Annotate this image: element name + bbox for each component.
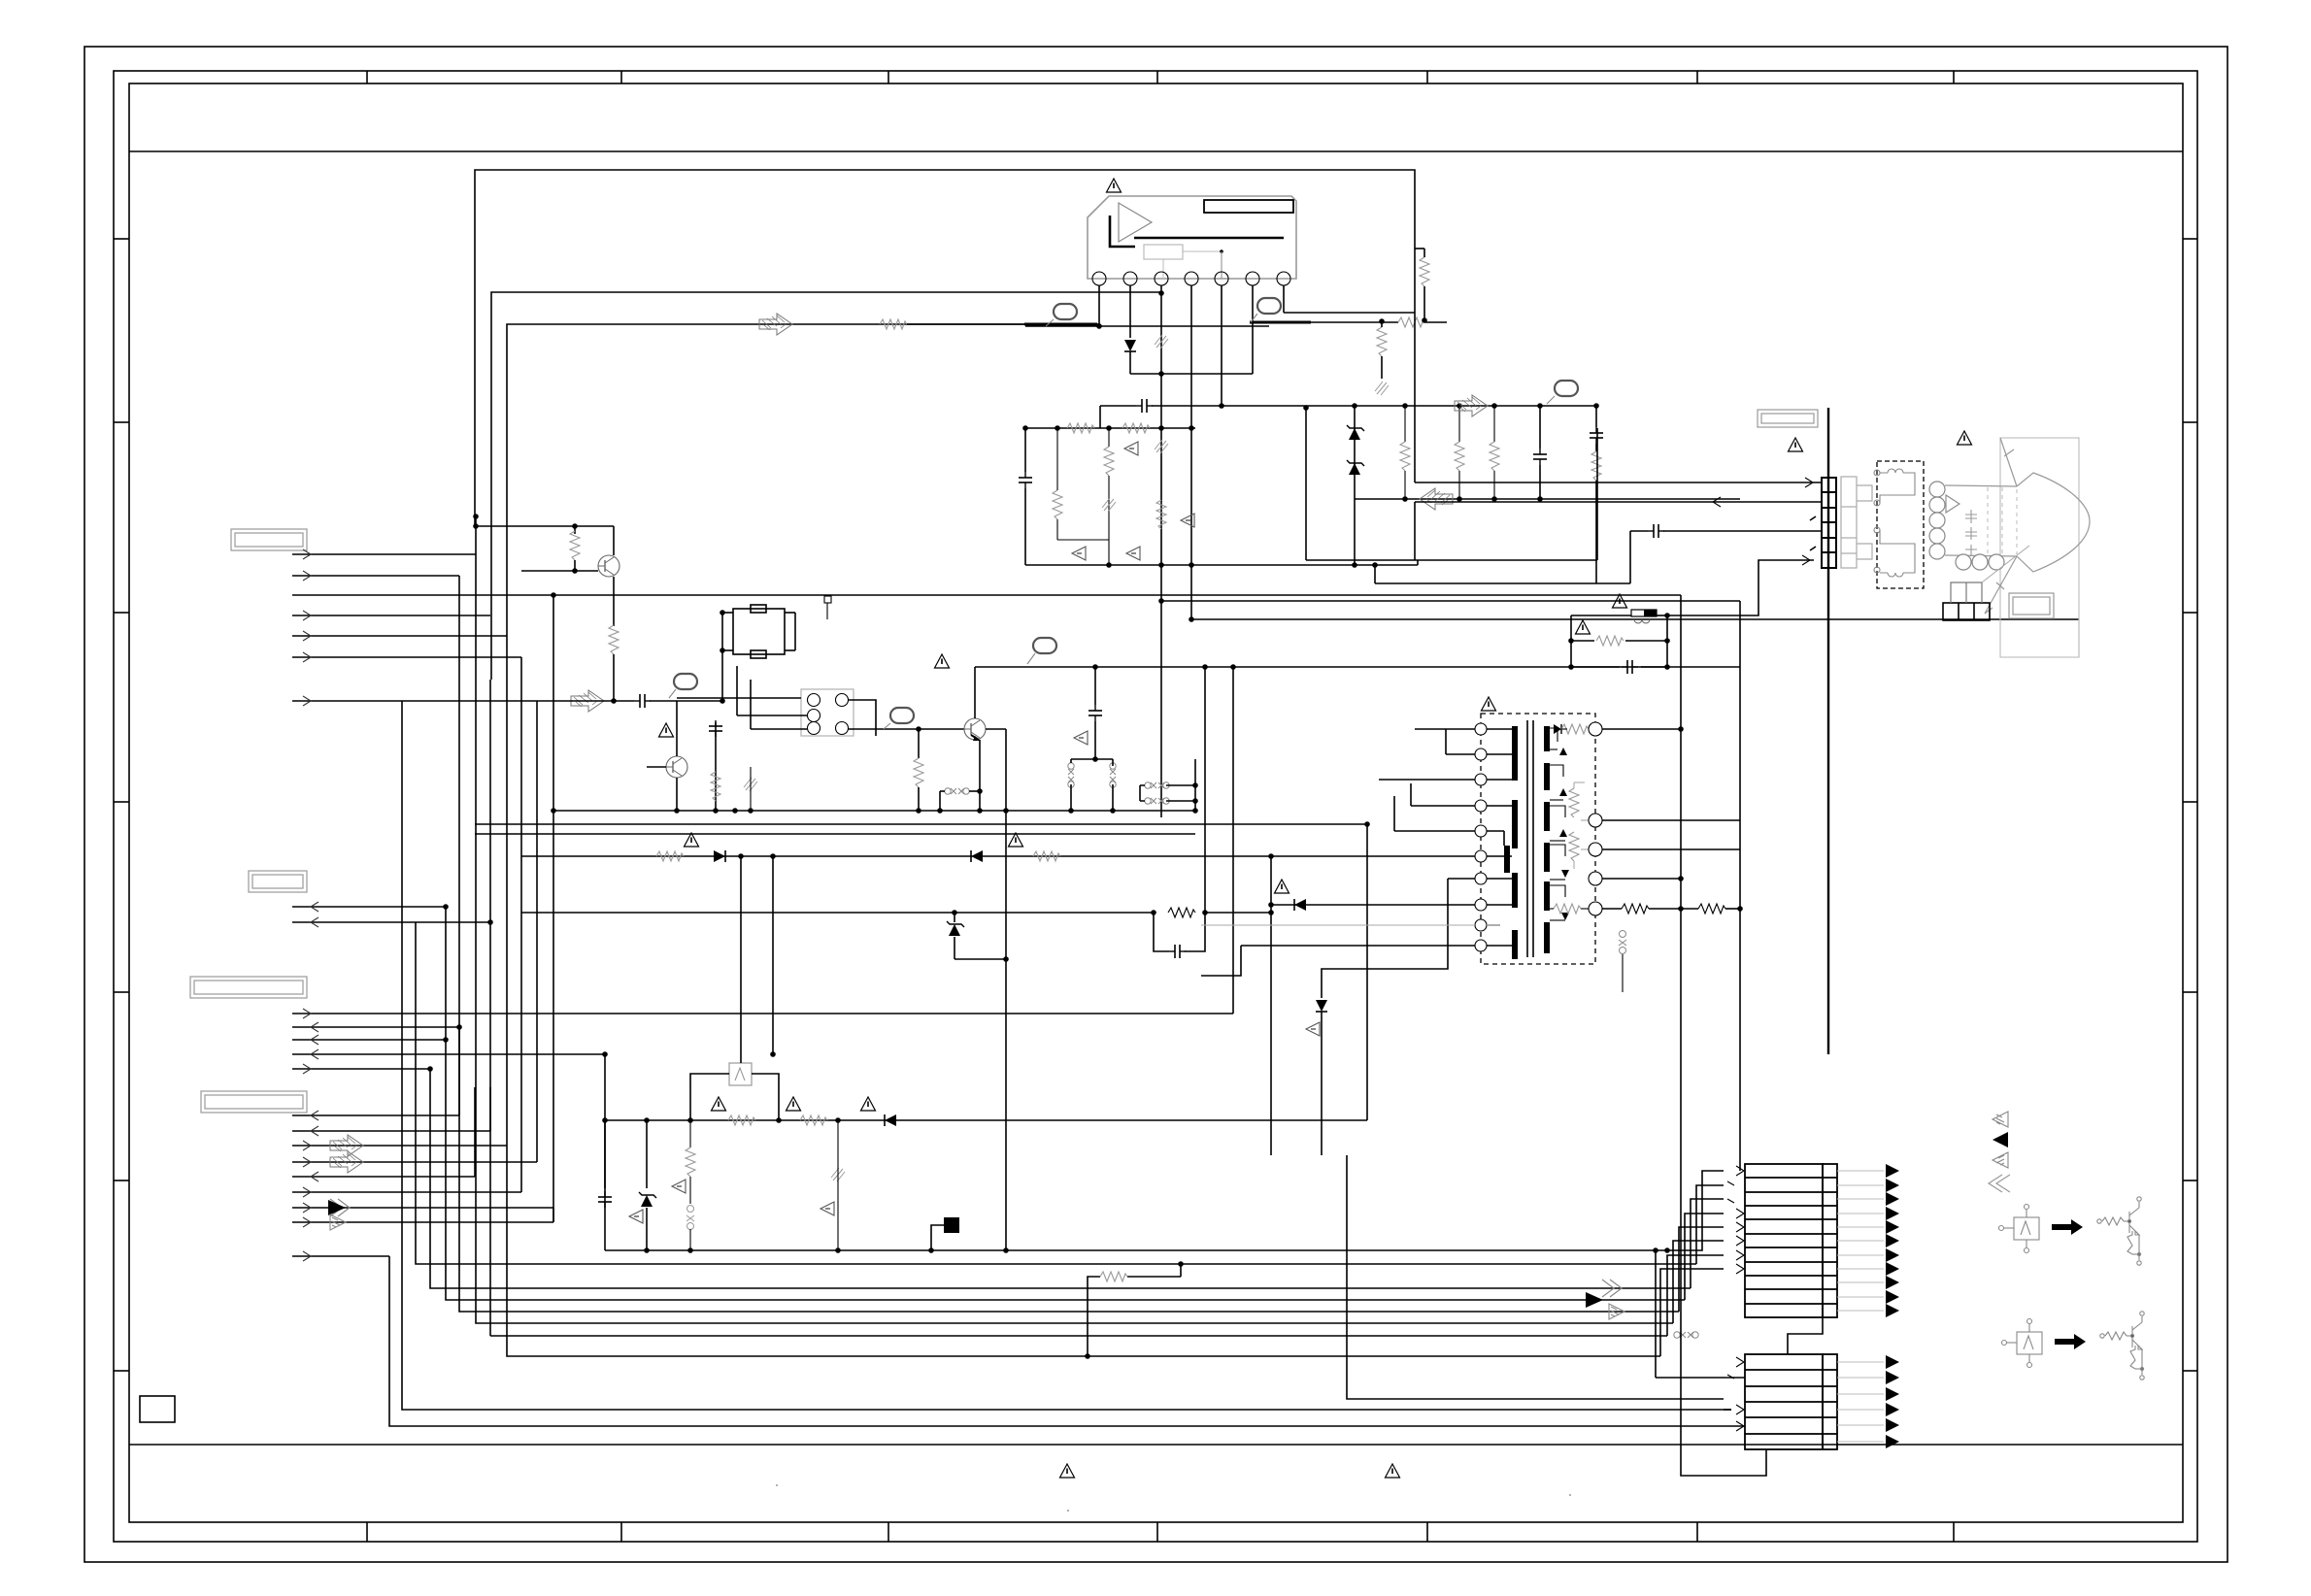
label box top	[1758, 410, 1818, 427]
right pins	[1589, 722, 1602, 915]
CN housing (light)	[1841, 477, 1872, 568]
bold vertical line	[1827, 408, 1829, 1054]
column x474	[459, 1027, 1679, 1312]
transistor Q2	[666, 756, 687, 778]
big hatched arrows on group C stubs	[330, 1135, 363, 1156]
spark gap below right pin	[1619, 931, 1626, 954]
wire nested loop 2	[491, 292, 1161, 680]
left zone tick marks	[114, 239, 129, 1371]
CRT V1 neck pins	[1929, 482, 1945, 559]
stub A6	[292, 656, 521, 658]
bridge output wire right	[849, 729, 876, 736]
black rect top right inside	[1204, 200, 1293, 213]
black square test point	[944, 1217, 959, 1233]
zener pair column x1395	[1354, 406, 1356, 565]
group 1	[1999, 1205, 2040, 1253]
transformer T1	[1482, 697, 1496, 711]
open arrow glyphs	[330, 1199, 350, 1216]
cap at 627	[604, 1120, 606, 1188]
vertical from Q3 emitter down	[979, 740, 981, 811]
secondary bars	[1544, 726, 1550, 953]
connector CN2	[1745, 1164, 1837, 1317]
wire from snubber top to pin arrow	[1667, 560, 1814, 615]
wires into bridge	[677, 697, 722, 699]
hatched open arrow on stub 1259	[330, 1214, 346, 1230]
small stub square above (antenna node)	[824, 596, 831, 603]
stub A1	[292, 553, 476, 555]
RC bank verticals x1447,1503,1539 resistors; 1586 cap; 1644 cap+res	[1404, 406, 1406, 442]
gray resistor + diode pair at 711	[689, 1120, 691, 1147]
op-amp U1 pins 1-7	[1092, 272, 1290, 285]
left pins	[1475, 723, 1487, 951]
bottom circles (RGB)	[1956, 554, 2004, 570]
hook marks on CN rows 3,5	[1810, 516, 1816, 520]
column x472 upper	[458, 576, 460, 1115]
group 2	[2002, 1319, 2043, 1368]
CN-B left feeds	[1656, 1377, 1745, 1379]
bridge rectifier D1	[801, 689, 854, 736]
resistor under Q3 base node	[918, 729, 920, 758]
column x505	[490, 1335, 1667, 1337]
fusible resistor FR1	[1631, 610, 1657, 623]
resistor bank bus y441	[1025, 427, 1195, 429]
inner sheet top rule	[129, 150, 2183, 152]
warning triangle	[659, 723, 674, 737]
oval link above y418	[1555, 381, 1578, 396]
degaussing coil L1 (dashed)	[1877, 461, 1924, 588]
hot bus continues from bank right to right column	[1374, 565, 1376, 583]
right zone tick marks	[2183, 239, 2197, 1371]
vertical 623: from stub y1086 down to bus and below	[604, 1054, 606, 1250]
top resistor to right pin	[1561, 724, 1589, 734]
resistors + diode on bus	[712, 1097, 726, 1111]
resistor R on hot rail	[880, 319, 907, 329]
wire y722 right segment with arrow, cap, oval	[571, 690, 604, 712]
inner light rect	[1144, 245, 1183, 259]
connector CN3	[1745, 1354, 1837, 1449]
horizontal rail y542 with resistor + transistor Q	[476, 525, 614, 527]
connector label box 2	[249, 871, 307, 892]
y577 wire to top of degauss	[1306, 559, 1597, 561]
branch wires from photocoupler	[690, 1074, 729, 1085]
transformer left connections from main area	[1415, 728, 1475, 730]
secondary taps + diodes	[1550, 728, 1565, 920]
hatch gnd below pin3	[1155, 335, 1168, 349]
column x553	[536, 701, 538, 1162]
pin7 wire to loop right edge	[1284, 312, 1415, 314]
spark gap pair to right joints	[1145, 782, 1169, 788]
stub A4	[292, 615, 490, 616]
pin wires down	[1098, 285, 1100, 326]
column x459	[446, 907, 1685, 1300]
coils inside	[1874, 469, 1915, 577]
CN-A input arrows	[1727, 1166, 1744, 1274]
zener bus connect left	[1303, 405, 1309, 411]
op-amp U1 (hybrid regulator IC)	[1088, 179, 1296, 279]
row-to-connector step ups	[1088, 1155, 1731, 1410]
stub A3 long signal wire	[292, 594, 1681, 596]
column x443	[430, 1069, 1691, 1288]
hatched arrow right on y418 bus	[1455, 395, 1488, 416]
column x570	[553, 1208, 554, 1222]
transformer output wires	[1602, 728, 1681, 730]
primary winding bars	[1504, 726, 1518, 959]
left cap of bank	[1024, 428, 1026, 472]
op-amp triangle inside	[1119, 203, 1152, 242]
top zone tick marks	[367, 71, 1954, 83]
bottom resistor inside	[1554, 904, 1581, 914]
connector label box 4	[201, 1091, 307, 1113]
mid-page arrow glyphs on rows	[1602, 1280, 1622, 1297]
CRT V1 funnel	[1945, 438, 2090, 614]
resistor below Q1	[609, 625, 619, 654]
bank vertical resistors	[1053, 490, 1062, 519]
pin connection wires inside	[1487, 729, 1512, 946]
warning above IC	[1107, 179, 1122, 192]
junction dots on y418	[1219, 403, 1224, 409]
oval links beside IC	[1024, 323, 1097, 326]
CN-A output lines + triangles	[1837, 1171, 1884, 1311]
label box right of base	[2009, 593, 2054, 618]
wire hot rail with arrow+resistor	[507, 324, 1099, 1146]
column x490	[476, 516, 1673, 1323]
column x414	[402, 701, 1731, 1410]
stub A5	[292, 635, 507, 637]
internal gray resistors	[1573, 782, 1575, 788]
column x428	[416, 922, 1181, 1264]
CN-B bottom feed loop	[1681, 1250, 1766, 1476]
spark gaps row	[945, 788, 969, 794]
diode into transformer line y928	[1268, 902, 1274, 908]
column x401	[389, 1256, 1745, 1426]
column x522	[507, 1146, 1660, 1356]
Q3 collector up to feedback loop	[974, 667, 976, 718]
notes band top rule	[129, 1444, 2183, 1446]
zener at 666	[646, 1120, 648, 1188]
CRT V1 assembly box	[2000, 438, 2079, 657]
dashed grid lines	[1988, 487, 2017, 556]
long vertical bus x1731	[1680, 595, 1682, 1250]
photocoupler PC3	[729, 1063, 752, 1085]
small arrowheads group A	[303, 549, 311, 706]
CRT base connector	[1943, 603, 1990, 620]
wire to Q3	[919, 728, 964, 730]
pin bus y336	[1025, 325, 1269, 327]
hatched arrow on hot rail	[759, 314, 792, 335]
right side resistor on loop right edge	[1420, 257, 1429, 286]
ground triangles in bank	[1124, 442, 1138, 455]
stub A7	[292, 700, 537, 702]
main low bus y841	[553, 810, 1195, 812]
vertical x796 down	[772, 856, 774, 1054]
cluster bottom bus y1288	[605, 1249, 1367, 1251]
grid bars in neck	[1965, 510, 1977, 556]
relay RL1 (jumper box)	[722, 605, 795, 658]
spark gap on row wire	[1674, 1332, 1698, 1338]
cap + resistor on left of bus	[715, 722, 717, 811]
cap top bus y418 with series cap	[1100, 405, 1136, 407]
column x537	[520, 657, 522, 1192]
y638 long wire	[1191, 618, 2079, 620]
stub A2	[292, 575, 459, 577]
revision box	[140, 1396, 175, 1422]
y856 y868 long wires	[475, 823, 1367, 825]
filled arrow on stub 1244	[328, 1200, 346, 1215]
cluster bus y1154	[605, 1119, 1367, 1121]
bank bottom bus y582	[1025, 564, 1418, 566]
y933 wire with RC pair	[521, 912, 1154, 914]
bottom zone tick marks	[367, 1522, 1954, 1542]
junction dots in nest	[443, 904, 449, 910]
y619 wire to right vertical	[1161, 600, 1740, 602]
resistor lower on x1445	[1377, 327, 1387, 356]
vertical spark gaps on bus	[1068, 763, 1074, 787]
diode below pin2	[1124, 340, 1136, 351]
y894 diode wire	[521, 855, 1271, 857]
cap under junction 1128	[1094, 667, 1096, 705]
core lines	[1526, 720, 1528, 957]
connector label box 3	[190, 977, 307, 998]
CN-A top feed from x1792	[1739, 1164, 1741, 1171]
y882 wire	[1268, 853, 1274, 859]
wires entering CN	[1415, 482, 1822, 483]
gray hatch + gnd at 863	[831, 1168, 845, 1181]
transistor Q1	[598, 555, 620, 577]
wire big loop left vertical	[475, 170, 1415, 526]
RC bank bottom bus y514	[1355, 498, 1740, 500]
vertical x1408 long	[1366, 824, 1368, 1120]
vertical 1036 from bus y841 down	[1005, 729, 1007, 1250]
connector label box 1	[231, 529, 307, 550]
bold feedback trace	[1134, 237, 1284, 240]
transformer secondary return path	[1322, 879, 1448, 998]
connector CN1 (deflection yoke)	[1822, 478, 1836, 568]
